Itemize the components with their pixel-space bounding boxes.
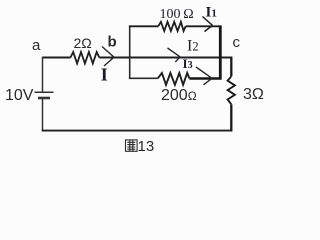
wire: left vertical from node a down to battery top <box>42 57 44 92</box>
wire: middle main wire from node a to R1 <box>43 57 71 59</box>
svg-text:100 Ω: 100 Ω <box>160 7 194 22</box>
svg-text:10V: 10V <box>5 87 34 104</box>
svg-text:I1: I1 <box>206 5 217 21</box>
battery B1 short plate (-) <box>38 97 50 100</box>
svg-text:13: 13 <box>138 138 155 155</box>
wire: left bracket vertical of parallel section <box>129 26 131 79</box>
wire: left vertical from battery bottom to bottom wire <box>42 99 44 131</box>
wire: bottom branch horizontal right segment (thick) <box>189 77 221 80</box>
wire: top branch horizontal right segment <box>186 25 221 27</box>
resistor R4 3ohm vertical zigzag <box>228 76 235 104</box>
arrow: branch current I2 on middle wire <box>168 48 181 62</box>
wire: right vertical from R4 down to bottom wire <box>230 104 232 131</box>
resistor R3 200ohm zigzag <box>158 73 190 85</box>
svg-text:I: I <box>101 65 108 85</box>
svg-text:3Ω: 3Ω <box>243 86 264 103</box>
svg-text:a: a <box>32 37 41 54</box>
caption figure 13: hand-drawn CJK glyph for tu (figure) <box>126 140 138 151</box>
svg-text:200Ω: 200Ω <box>161 87 197 104</box>
wire: bottom return wire <box>42 130 232 132</box>
wire: right vertical from middle wire down to resistor R4 <box>230 57 232 77</box>
arrow: main current I on wire after R1 <box>102 47 114 67</box>
svg-text:I2: I2 <box>187 38 199 55</box>
svg-text:b: b <box>108 34 117 51</box>
resistor R2 100ohm zigzag <box>158 22 186 31</box>
wire: top branch horizontal left segment <box>129 25 158 27</box>
arrow: branch current I3 <box>196 67 212 85</box>
wire: bottom branch horizontal left segment <box>129 77 158 79</box>
battery B1 long plate (+) <box>35 91 54 93</box>
wire: right bracket vertical joining three branches at node c <box>219 25 222 79</box>
resistor R1 2ohm zigzag on main wire <box>71 52 100 64</box>
arrow: branch current I1 <box>203 17 213 32</box>
wire: middle main wire from R1 to node c <box>99 57 232 59</box>
svg-text:2Ω: 2Ω <box>74 35 92 51</box>
svg-text:c: c <box>233 34 241 51</box>
